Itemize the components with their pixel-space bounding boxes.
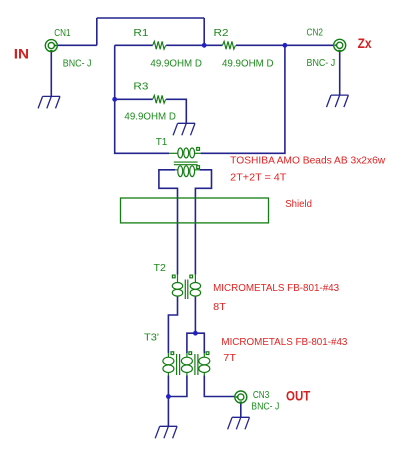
wire R2 right segment [236,44,285,46]
connector CN1 BNC-J [45,40,57,53]
ground at CN3 [228,417,250,429]
svg-text:OUT: OUT [286,387,311,403]
wire T3 node branch right [195,333,204,353]
wire CN2 to ground [339,52,341,96]
connector CN3 BNC-J [235,391,247,404]
wire R1 left segment [115,44,153,46]
wire CN3 to ground [240,403,242,417]
svg-text:49.9OHM D: 49.9OHM D [222,58,274,69]
ground at CN1 [38,96,60,108]
svg-text:T2: T2 [154,263,167,274]
ground at R3 [173,123,195,135]
svg-text:8T: 8T [213,302,226,313]
wire left riser CN1 to top bus [96,18,98,45]
svg-text:7T: 7T [223,353,236,364]
wire T3 winding3 bottom to CN3 [204,376,234,397]
node T3 top junction [193,331,198,336]
wire node B drop to T1 right [201,45,285,153]
wire T1 can left [159,170,178,275]
wire R1 left drop to R3 node [114,45,116,99]
wire T3 winding1 bottom [167,376,169,397]
svg-text:49.9OHM D: 49.9OHM D [150,58,202,69]
wire T3 winding2 bottom to node [168,376,187,397]
svg-text:BNC- J: BNC- J [63,58,92,69]
wire CN1 stub [57,44,97,46]
wire bottom node to ground [167,397,169,427]
resistor R3 [153,95,166,103]
ground at bottom node [155,426,177,438]
svg-text:MICROMETALS FB-801-#43: MICROMETALS FB-801-#43 [221,337,347,348]
svg-text:BNC- J: BNC- J [251,401,279,412]
svg-text:CN2: CN2 [307,28,324,39]
wire R3 right segment to ground [166,99,186,123]
node T3 bottom junction [166,394,171,399]
transformer T1 [169,148,201,177]
svg-text:T1: T1 [156,137,168,148]
svg-text:BNC- J: BNC- J [307,58,336,69]
svg-text:R3: R3 [133,81,148,92]
node A junction [202,43,207,48]
svg-text:CN3: CN3 [253,390,270,401]
wire R3 node down to T1 left [115,99,169,153]
connector CN2 BNC-J [334,39,346,52]
wire T1 can right [195,170,211,275]
node R3 junction [112,97,117,102]
wire T3 node branch left [187,333,196,353]
wire top bus [97,17,204,19]
wire R3 left segment [115,98,153,100]
transformer T2 [172,275,200,299]
wire node B to CN2 [285,44,334,46]
wire R1 right segment [166,44,204,46]
svg-text:2T+2T = 4T: 2T+2T = 4T [230,172,286,183]
svg-text:Shield: Shield [285,199,312,210]
wire T2 bottom left to T3 winding 1 [168,296,177,353]
shield box [121,198,269,223]
svg-text:CN1: CN1 [54,28,71,39]
wire CN1 to ground [50,52,52,97]
wire T2 bottom right to T3 node [194,296,196,333]
svg-text:MICROMETALS FB-801-#43: MICROMETALS FB-801-#43 [213,283,339,294]
transformer T3' [163,352,210,376]
wire node A riser [203,18,205,45]
resistor R2 [223,41,236,49]
svg-text:TOSHIBA AMO Beads AB 3x2x6w: TOSHIBA AMO Beads AB 3x2x6w [230,155,386,166]
wire R2 left segment [204,44,222,46]
resistor R1 [153,41,166,49]
svg-text:Zx: Zx [358,35,372,51]
svg-text:T3': T3' [144,332,159,343]
node B junction [283,43,288,48]
ground at CN2 [327,95,349,107]
svg-text:R2: R2 [214,28,229,39]
svg-text:49.9OHM D: 49.9OHM D [124,112,175,123]
svg-text:R1: R1 [133,28,148,39]
svg-text:IN: IN [14,45,29,61]
